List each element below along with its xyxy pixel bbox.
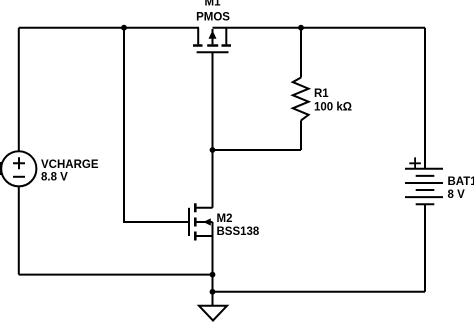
wire M1 gate vertical [212, 52, 214, 150]
svg-text:VCHARGE: VCHARGE [41, 159, 99, 171]
svg-text:BSS138: BSS138 [217, 226, 260, 238]
svg-text:PMOS: PMOS [196, 12, 230, 24]
resistor R1 [293, 78, 309, 121]
wire M2 source vertical [212, 236, 214, 275]
label M1 PMOS [196, 0, 230, 24]
svg-text:BAT1: BAT1 [448, 176, 474, 188]
wire top-right rail [213, 27, 426, 29]
svg-text:8 V: 8 V [448, 189, 466, 201]
node junction R1 top [298, 25, 304, 31]
label R1 100 kOhm [314, 88, 352, 114]
node junction M1 gate / M2 drain [210, 147, 216, 153]
wire M2 gate drop [124, 28, 189, 222]
wire R1 top stub [300, 28, 302, 78]
wire left rail upper [18, 28, 20, 152]
svg-text:M1: M1 [205, 0, 222, 9]
label M2 BSS138 [217, 213, 260, 238]
ground [199, 306, 227, 321]
wire ground stub [212, 292, 214, 306]
wire bottom-right horizontal [213, 291, 426, 293]
transistor M1 PMOS [193, 28, 231, 53]
voltage source V1 VCHARGE [1, 151, 36, 186]
wire right rail upper [424, 28, 426, 169]
svg-text:M2: M2 [217, 213, 233, 225]
label BAT1 8 V [448, 176, 474, 201]
wire between junctions [212, 275, 214, 292]
label VCHARGE 8.8 V [41, 159, 99, 184]
wire right rail lower [424, 204, 426, 292]
wire bottom-left horizontal [19, 274, 213, 276]
svg-text:8.8 V: 8.8 V [41, 172, 68, 184]
node junction source/right rail [210, 289, 216, 295]
transistor M2 BSS138 [189, 203, 213, 240]
wire M2 drain vertical [212, 150, 214, 208]
battery BAT1 [405, 157, 443, 204]
node junction M2 gate tap [121, 25, 127, 31]
wire left rail lower [18, 186, 20, 274]
clipped component stub at left edge [0, 162, 2, 175]
wire mid horizontal R1 to M1 gate [213, 149, 302, 151]
wire top-left rail [19, 27, 199, 29]
wire R1 bottom stub [300, 120, 302, 150]
node junction source/left rail [210, 272, 216, 278]
svg-text:R1: R1 [314, 88, 329, 100]
svg-text:100 kΩ: 100 kΩ [314, 101, 352, 113]
